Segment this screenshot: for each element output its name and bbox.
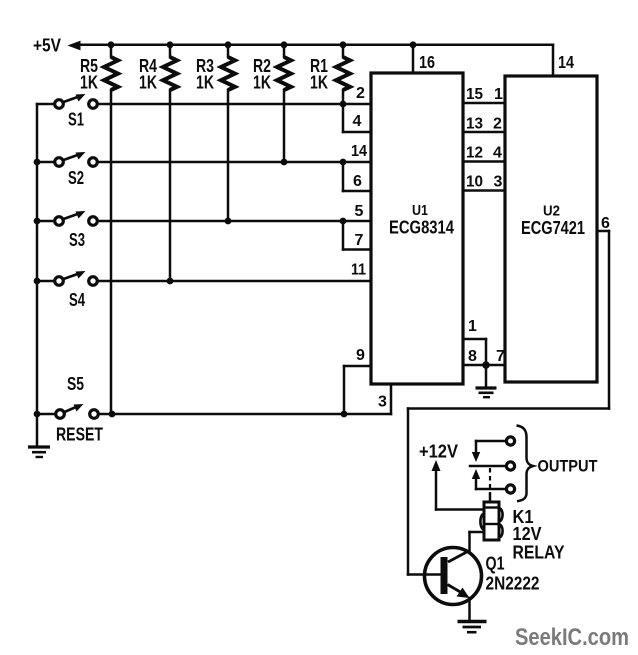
resistor R4 xyxy=(163,45,177,281)
svg-text:S5: S5 xyxy=(67,374,84,394)
svg-text:7: 7 xyxy=(496,348,505,365)
svg-text:8: 8 xyxy=(468,348,477,365)
op-amp U1 ECG8314 (IC box) xyxy=(371,73,463,384)
svg-text:RELAY: RELAY xyxy=(513,543,565,563)
svg-text:6: 6 xyxy=(601,215,610,232)
node junction RESET row / pin9 stub xyxy=(341,411,348,418)
svg-text:6: 6 xyxy=(353,173,362,190)
node junction S2 row / pin6 stub xyxy=(340,159,347,166)
wire S4 row to U1 pin 11 xyxy=(98,280,372,283)
svg-text:12V: 12V xyxy=(513,524,542,544)
wire rung U1.15 to U2.1 xyxy=(463,102,505,105)
wire U1 pin 9 stub xyxy=(344,366,371,414)
relay contact: top fixed xyxy=(472,437,515,462)
wire U1 pin 8 to U2 pin 7 xyxy=(463,364,505,367)
svg-text:+5V: +5V xyxy=(33,36,61,56)
svg-text:2N2222: 2N2222 xyxy=(486,574,540,594)
svg-text:+12V: +12V xyxy=(419,442,458,462)
svg-text:Q1: Q1 xyxy=(486,554,505,574)
svg-text:4: 4 xyxy=(353,113,362,130)
ground (between U1 and U2) xyxy=(476,365,497,397)
wire RESET row to U1 pin 3 xyxy=(99,384,392,414)
brace for OUTPUT xyxy=(517,426,534,502)
wire U1 pin 1 stub xyxy=(463,339,486,365)
op-amp U2 ECG7421 (IC box) xyxy=(505,76,597,382)
svg-text:S4: S4 xyxy=(69,290,85,310)
svg-text:ECG8314: ECG8314 xyxy=(389,218,454,238)
svg-text:1K: 1K xyxy=(139,73,157,93)
relay K1 coil xyxy=(480,502,502,540)
node junction S3 row / pin7 stub xyxy=(340,218,347,225)
wire mechanical link (dashed) arm to coil xyxy=(489,468,491,494)
wire left bus vertical xyxy=(36,104,39,446)
node junction S3 row / R3 column xyxy=(225,218,232,225)
svg-text:U2: U2 xyxy=(543,203,560,220)
svg-text:4: 4 xyxy=(493,145,502,162)
ground (below Q1) xyxy=(458,622,487,633)
pin 7 stub box xyxy=(343,221,371,250)
node junction RESET row / R5 column xyxy=(109,411,116,418)
wire Q1 emitter to ground xyxy=(468,598,471,621)
wire rung U1.12 to U2.4 xyxy=(463,160,505,163)
svg-text:S1: S1 xyxy=(68,110,84,130)
switch S5 (RESET) xyxy=(37,404,98,418)
switch S1 xyxy=(37,94,97,108)
svg-text:14: 14 xyxy=(351,143,367,160)
svg-text:S3: S3 xyxy=(69,230,85,250)
svg-text:14: 14 xyxy=(558,52,574,72)
svg-text:ECG7421: ECG7421 xyxy=(521,218,585,238)
svg-text:2: 2 xyxy=(356,85,365,102)
svg-text:OUTPUT: OUTPUT xyxy=(538,457,599,476)
resistor R3 xyxy=(221,45,235,221)
switch S3 xyxy=(37,211,97,225)
wire rail drop to U1 pin 16 xyxy=(412,45,415,73)
wire +5V rail with left arrowhead xyxy=(68,41,554,51)
svg-text:10: 10 xyxy=(466,174,483,191)
svg-text:9: 9 xyxy=(356,347,365,364)
svg-text:1K: 1K xyxy=(253,73,271,93)
svg-text:1K: 1K xyxy=(196,73,214,93)
svg-text:1: 1 xyxy=(494,86,503,103)
svg-text:3: 3 xyxy=(494,174,503,191)
svg-text:16: 16 xyxy=(419,52,435,72)
svg-text:12: 12 xyxy=(466,145,483,162)
svg-text:5: 5 xyxy=(355,203,364,220)
svg-text:15: 15 xyxy=(466,86,483,103)
junction dots on +5V rail xyxy=(108,41,417,48)
svg-text:SeekIC.com: SeekIC.com xyxy=(515,624,629,651)
node junction S2 row / R2 column xyxy=(281,159,288,166)
svg-text:1K: 1K xyxy=(310,73,328,93)
node junction S1 row / R1 column xyxy=(340,101,347,108)
wire U2 pin 6 to Q1 base xyxy=(408,231,609,575)
svg-text:3: 3 xyxy=(378,394,387,411)
node junction S4 row / R4 column xyxy=(167,278,174,285)
resistor R5 xyxy=(104,45,118,414)
svg-text:1K: 1K xyxy=(80,73,98,93)
svg-text:13: 13 xyxy=(466,116,483,133)
junction dots on left bus xyxy=(34,159,41,418)
resistor R1 xyxy=(336,45,350,104)
wire S2 row to U1 pin 14 xyxy=(98,161,372,164)
pin 6 stub box xyxy=(343,162,371,191)
switch S2 xyxy=(37,152,97,166)
svg-text:11: 11 xyxy=(351,262,366,279)
svg-text:U1: U1 xyxy=(412,202,428,219)
relay contact: moving arm xyxy=(470,462,515,470)
wire rail drop to U2 pin 14 xyxy=(552,45,555,76)
wire S1 row to U1 pin 2 xyxy=(98,103,372,106)
svg-text:2: 2 xyxy=(493,116,502,133)
pin 4 stub box xyxy=(343,104,371,132)
relay contact: bottom fixed xyxy=(472,469,515,493)
wire rung U1.13 to U2.2 xyxy=(463,131,505,134)
switch S4 xyxy=(37,271,97,285)
wire rung U1.10 to U2.3 xyxy=(463,189,505,192)
wire coil bottom to Q1 collector xyxy=(470,532,485,551)
svg-text:RESET: RESET xyxy=(56,425,103,445)
svg-text:7: 7 xyxy=(355,232,364,249)
svg-text:S2: S2 xyxy=(68,168,84,188)
svg-text:1: 1 xyxy=(468,318,477,335)
label K1 12V RELAY xyxy=(513,507,565,563)
transistor Q1 2N2222 xyxy=(425,548,482,605)
ground (left, below RESET bus) xyxy=(28,447,50,457)
resistor R2 xyxy=(277,45,291,162)
wire +12V arrow to relay coil xyxy=(432,460,485,510)
node junction pin8 row / ground xyxy=(482,361,490,369)
wire S3 row to U1 pin 5 xyxy=(98,220,372,223)
